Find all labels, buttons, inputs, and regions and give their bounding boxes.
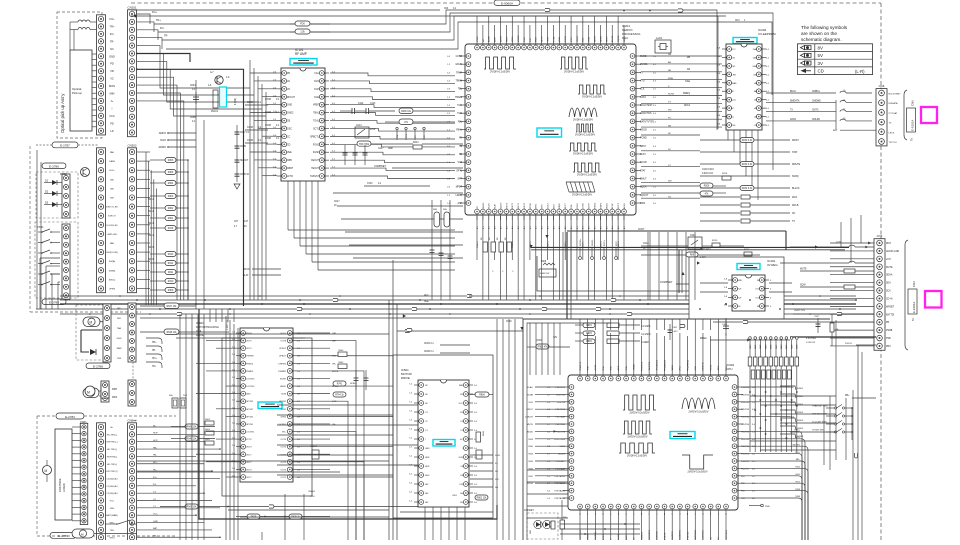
svg-text:R915: R915 xyxy=(586,341,592,343)
legend symbol 5V xyxy=(801,53,805,57)
svg-text:SW10: SW10 xyxy=(527,483,534,485)
svg-text:R302: R302 xyxy=(168,208,174,210)
svg-text:COMPDET: COMPDET xyxy=(374,165,386,168)
IC101 RF AMP xyxy=(281,68,325,181)
svg-text:COM: COM xyxy=(536,340,541,342)
PM8 stub xyxy=(761,504,764,507)
wires from ctrl connector right xyxy=(137,426,196,428)
svg-text:4-1: 4-1 xyxy=(612,226,614,229)
svg-text:SUBB: SUBB xyxy=(527,394,533,396)
svg-text:R806: R806 xyxy=(479,395,485,397)
svg-text:TGAL: TGAL xyxy=(313,120,320,123)
svg-text:SW2: SW2 xyxy=(795,467,801,469)
vertical bus lines x~390 xyxy=(388,300,390,540)
svg-text:C00B: C00B xyxy=(240,146,246,148)
mech section dashed border xyxy=(29,146,31,312)
svg-text:PM8: PM8 xyxy=(765,506,770,508)
svg-text:BXTTDI: BXTTDI xyxy=(886,314,895,316)
jumper xyxy=(412,307,417,310)
svg-text:/WAS: /WAS xyxy=(731,82,737,85)
wire bus FO- xyxy=(162,16,718,129)
svg-text:COM: COM xyxy=(247,139,253,142)
svg-text:VDD2: VDD2 xyxy=(606,202,608,209)
svg-text:4-1: 4-1 xyxy=(606,226,608,229)
svg-text:STAT: STAT xyxy=(640,169,646,172)
svg-text:/LRS: /LRS xyxy=(731,74,736,76)
svg-text:SPTL: SPTL xyxy=(456,170,462,172)
jumper xyxy=(854,453,857,458)
svg-text:F3-: F3- xyxy=(153,484,157,486)
resistor network element xyxy=(779,357,783,366)
resistor xyxy=(165,170,176,175)
svg-text:NCK2: NCK2 xyxy=(684,105,691,107)
svg-text:R312: R312 xyxy=(168,263,174,265)
svg-text:NE: NE xyxy=(668,70,672,72)
svg-text:MFBT: MFBT xyxy=(456,187,463,189)
svg-text:WD: WD xyxy=(668,110,672,112)
svg-text:LRCK/TRS: LRCK/TRS xyxy=(640,113,652,115)
waveform CLV xyxy=(484,57,516,69)
wire xyxy=(840,222,842,247)
svg-text:VC: VC xyxy=(424,135,426,138)
resistor R74x xyxy=(338,352,347,357)
svg-text:P06/TX2: P06/TX2 xyxy=(580,361,582,370)
svg-text:R744 1k: R744 1k xyxy=(335,395,344,397)
svg-text:HO+: HO+ xyxy=(152,358,157,360)
svg-text:LBP: LBP xyxy=(332,341,337,343)
resistor R2xx vertical xyxy=(507,242,512,252)
wire bus y331 xyxy=(397,330,523,332)
svg-text:OUT3: OUT3 xyxy=(246,469,252,471)
svg-text:MON: MON xyxy=(109,84,115,88)
arrow xyxy=(529,245,532,248)
IC401 3V REG container xyxy=(689,257,784,319)
svg-text:SOM: SOM xyxy=(281,394,286,396)
wire thick PSRB xyxy=(790,336,876,338)
svg-text:C00B 10: C00B 10 xyxy=(240,174,250,176)
svg-text:R303: R303 xyxy=(168,196,174,198)
svg-text:CQCK: CQCK xyxy=(618,35,620,42)
svg-text:OUT4: OUT4 xyxy=(280,439,286,441)
svg-text:VSS2: VSS2 xyxy=(477,36,479,42)
svg-text:FGN2: FGN2 xyxy=(313,144,320,146)
svg-text:OPEN: OPEN xyxy=(109,289,116,291)
svg-text:2V/DIV-0.2uS/DIV: 2V/DIV-0.2uS/DIV xyxy=(490,70,510,73)
vertical wires right edge of CPU box xyxy=(835,320,837,460)
svg-text:M: M xyxy=(45,469,48,473)
svg-text:MDP2: MDP2 xyxy=(600,202,602,209)
waveform pulses xyxy=(623,395,656,410)
svg-text:VCC2: VCC2 xyxy=(246,439,252,441)
svg-text:C2(100)LA1: C2(100)LA1 xyxy=(106,492,118,495)
wire PSRB row xyxy=(793,313,876,315)
svg-text:STAT: STAT xyxy=(792,151,798,154)
junction dots under network xyxy=(749,391,751,393)
bracket To E-9101A CN6 xyxy=(904,90,907,140)
svg-text:LOW DIF: LOW DIF xyxy=(806,342,816,344)
svg-text:WRST: WRST xyxy=(792,140,799,142)
svg-text:CBRT: CBRT xyxy=(287,168,294,170)
svg-text:DM: DM xyxy=(668,181,672,183)
svg-text:MNT0: MNT0 xyxy=(524,202,526,209)
R802 resistor xyxy=(551,521,555,529)
resistor R91x vertical xyxy=(830,323,834,332)
resistor R74x xyxy=(338,364,347,369)
svg-text:GND: GND xyxy=(246,394,251,396)
svg-text:VH: VH xyxy=(460,502,463,504)
svg-text:CN4: CN4 xyxy=(877,234,883,238)
resistor xyxy=(165,261,176,266)
svg-text:PB+: PB+ xyxy=(845,395,850,397)
svg-text:PB: PB xyxy=(886,322,890,324)
svg-text:TRKP: TRKP xyxy=(456,72,463,74)
wires IC201 to IC202 xyxy=(641,55,722,57)
svg-text:SPBLF: SPBLF xyxy=(332,386,340,388)
wire xyxy=(835,100,837,130)
svg-text:R603: R603 xyxy=(205,419,211,421)
svg-text:4-1: 4-1 xyxy=(483,226,485,229)
legend symbol CD xyxy=(801,68,807,73)
svg-text:MDS: MDS xyxy=(112,397,118,399)
jumper xyxy=(467,294,472,297)
svg-text:MP: MP xyxy=(117,308,121,310)
svg-text:LOCRV1: LOCRV1 xyxy=(246,432,255,434)
left verticals from E-2785 to bus xyxy=(39,258,41,309)
svg-text:P13/TA2B3: P13/TA2B3 xyxy=(555,482,566,485)
resistor R40x xyxy=(844,269,855,273)
svg-text:4-1: 4-1 xyxy=(500,226,502,229)
svg-text:NAE: NAE xyxy=(685,80,690,83)
svg-text:OUT4: OUT4 xyxy=(280,469,286,471)
svg-text:GND: GND xyxy=(287,105,292,107)
svg-text:THARGST SW1: THARGST SW1 xyxy=(812,405,829,408)
svg-text:SW3: SW3 xyxy=(528,439,534,441)
svg-text:BUS: BUS xyxy=(718,365,720,370)
jumper xyxy=(720,298,725,301)
svg-text:SW02: SW02 xyxy=(797,404,804,406)
wire thick ground lower xyxy=(199,309,497,519)
svg-text:A-LD: A-LD xyxy=(731,99,736,102)
svg-text:TAB: TAB xyxy=(117,327,122,330)
resistor xyxy=(740,138,754,143)
optical pickup assy dashed box xyxy=(57,12,102,138)
svg-text:TAB2: TAB2 xyxy=(116,347,122,350)
waveform xyxy=(623,421,652,434)
svg-text:3V REG.: 3V REG. xyxy=(767,263,779,267)
svg-text:P45/TB3: P45/TB3 xyxy=(741,409,750,411)
svg-text:R218: R218 xyxy=(722,173,728,175)
svg-text:LED+: LED+ xyxy=(109,170,115,172)
IC901 CPU body xyxy=(568,375,738,510)
svg-text:MNT3: MNT3 xyxy=(506,202,508,209)
resistor network element xyxy=(753,357,757,366)
svg-text:SQOUT: SQOUT xyxy=(640,195,649,197)
control logic block xyxy=(55,429,72,520)
waveform xyxy=(569,143,597,151)
svg-text:OUT: OUT xyxy=(755,289,760,291)
svg-text:ATSK: ATSK xyxy=(611,203,614,209)
svg-text:SQW: SQW xyxy=(800,285,806,287)
svg-text:Pick-up: Pick-up xyxy=(72,91,82,95)
svg-text:0.068 1W: 0.068 1W xyxy=(540,273,550,275)
svg-text:XTO: XTO xyxy=(640,81,645,83)
svg-text:LD: LD xyxy=(110,129,113,133)
svg-text:4-1: 4-1 xyxy=(589,226,591,229)
horizontal collectors right of network xyxy=(750,395,836,397)
svg-text:DRIVE: DRIVE xyxy=(401,376,410,380)
svg-text:MUTE1: MUTE1 xyxy=(793,444,801,446)
connector CN30x xyxy=(128,303,136,362)
svg-text:SSTP: SSTP xyxy=(589,203,591,209)
svg-text:COIL: COIL xyxy=(196,330,202,333)
svg-text:EJECT-LED: EJECT-LED xyxy=(106,207,118,209)
svg-text:FGSF: FGSF xyxy=(313,152,320,154)
wire bus FO+ xyxy=(154,10,717,130)
wires IC201 lower right to bus xyxy=(649,232,651,300)
svg-text:SMOUT: SMOUT xyxy=(240,160,249,162)
magenta square 2 xyxy=(925,291,942,308)
resistor xyxy=(741,203,750,207)
resistor xyxy=(741,219,750,223)
svg-text:TEST: TEST xyxy=(547,36,549,42)
svg-text:EC: EC xyxy=(460,439,463,441)
svg-text:LED: LED xyxy=(110,198,115,200)
svg-text:OUT7: OUT7 xyxy=(246,454,252,456)
connector CN4 xyxy=(874,239,885,351)
svg-text:XPCK: XPCK xyxy=(530,203,532,209)
svg-text:BLACK: BLACK xyxy=(792,187,800,190)
svg-text:SCK2: SCK2 xyxy=(595,364,597,370)
svg-text:COM: COM xyxy=(265,111,271,114)
svg-text:R0B: R0B xyxy=(433,209,438,211)
wire switch collector xyxy=(851,408,853,440)
svg-text:PBU: PBU xyxy=(886,346,891,348)
resistor xyxy=(165,226,176,231)
photo diodes DX02 xyxy=(52,180,57,185)
svg-text:CPLAY SW1: CPLAY SW1 xyxy=(812,429,825,432)
svg-text:CNP1: CNP1 xyxy=(80,421,87,424)
svg-text:FILI: FILI xyxy=(530,38,532,42)
svg-text:SRDO: SRDO xyxy=(483,202,485,209)
svg-text:SW4: SW4 xyxy=(528,454,534,456)
jumper xyxy=(407,328,412,331)
svg-text:VCKI: VCKI xyxy=(589,37,591,42)
svg-text:DVSS1: DVSS1 xyxy=(640,64,648,66)
jumper xyxy=(545,8,550,11)
resistor network element xyxy=(769,357,773,366)
svg-text:VREF: VREF xyxy=(313,105,320,107)
cap C92x vertical xyxy=(817,318,819,333)
bracket To E-9101A CN4 xyxy=(905,240,908,350)
cap cluster below IC201 left xyxy=(431,200,433,300)
svg-text:SE: SE xyxy=(459,154,463,156)
svg-text:AMP: AMP xyxy=(388,147,393,150)
svg-text:P07/TX1: P07/TX1 xyxy=(641,361,643,370)
svg-text:P45/TB2: P45/TB2 xyxy=(741,394,750,396)
svg-text:0.022: 0.022 xyxy=(672,331,678,333)
svg-text:MUTE: MUTE xyxy=(612,35,614,42)
svg-text:FGP: FGP xyxy=(314,89,319,91)
svg-text:PX02: PX02 xyxy=(60,172,67,176)
svg-text:R232 3.3k: R232 3.3k xyxy=(742,164,753,166)
svg-text:VC2: VC2 xyxy=(458,162,463,164)
highlight IC901 xyxy=(670,432,695,439)
svg-text:GPCN2: GPCN2 xyxy=(246,416,254,418)
svg-text:/DE: /DE xyxy=(753,74,757,76)
connector (mech left) xyxy=(97,148,106,293)
svg-text:HD-TRK(-): HD-TRK(-) xyxy=(107,449,117,451)
svg-text:NC: NC xyxy=(757,280,761,282)
svg-text:SCK: SCK xyxy=(886,291,891,293)
switch xyxy=(118,520,130,524)
svg-text:LD: LD xyxy=(287,81,290,83)
svg-text:DOOR-LED: DOOR-LED xyxy=(106,225,118,227)
svg-text:SCOR: SCOR xyxy=(640,162,647,164)
resistor R2xx vertical xyxy=(491,242,496,252)
svg-text:R802 10k: R802 10k xyxy=(477,498,488,500)
resistor R2xx vertical xyxy=(483,242,488,252)
motor M stadium xyxy=(83,317,100,327)
connector (ctrl) xyxy=(97,423,106,542)
transistor Q101 xyxy=(215,76,223,84)
svg-text:R232 3.3k: R232 3.3k xyxy=(742,140,753,142)
resistor xyxy=(185,424,198,429)
svg-text:LED: LED xyxy=(530,529,532,534)
svg-text:HI2F: HI2F xyxy=(425,466,430,468)
svg-text:MNT1: MNT1 xyxy=(518,202,520,209)
svg-text:SQOV: SQOV xyxy=(500,202,502,209)
svg-text:P64/MCK2: P64/MCK2 xyxy=(664,359,666,370)
svg-text:FEOUT: FEOUT xyxy=(311,160,319,162)
svg-text:2V/DIV-0.2uS/DIV: 2V/DIV-0.2uS/DIV xyxy=(687,470,707,473)
svg-text:C03: C03 xyxy=(444,8,449,10)
svg-text:R220: R220 xyxy=(712,240,718,242)
svg-text:LOCRV3: LOCRV3 xyxy=(246,386,255,388)
svg-text:4-1: 4-1 xyxy=(524,226,526,229)
resistor R213 xyxy=(413,145,422,149)
svg-text:DMDATA: DMDATA xyxy=(790,99,800,102)
svg-text:GND2: GND2 xyxy=(287,113,294,115)
svg-text:NC: NC xyxy=(425,394,429,396)
wires right of IC601 xyxy=(297,332,330,334)
svg-text:P33/TA2B2: P33/TA2B2 xyxy=(555,475,566,478)
svg-text:2V/DIV-0.2uS/DIV: 2V/DIV-0.2uS/DIV xyxy=(572,193,592,196)
C222 trimmer xyxy=(688,237,702,249)
svg-text:CX-EEPROM: CX-EEPROM xyxy=(758,32,776,36)
svg-text:MUTE: MUTE xyxy=(332,371,339,373)
svg-text:To: To xyxy=(911,318,915,321)
resistor R91x xyxy=(607,323,619,328)
svg-text:4-1: 4-1 xyxy=(477,226,479,229)
svg-text:C3(100)LA1: C3(100)LA1 xyxy=(106,477,118,480)
svg-text:SW(C): SW(C) xyxy=(109,279,116,281)
svg-text:SQ: SQ xyxy=(668,196,671,198)
svg-text:MNT2: MNT2 xyxy=(512,202,514,209)
connector 3p xyxy=(128,380,136,406)
svg-text:LED: LED xyxy=(110,179,115,181)
caps and ground right xyxy=(355,370,357,390)
wires lower-left inside CPU box xyxy=(527,469,568,471)
jumper xyxy=(297,307,302,310)
capacitor chain C007/C00B xyxy=(236,125,238,182)
resistor pair R647/R648 xyxy=(164,303,179,309)
resistor network element xyxy=(764,357,768,366)
svg-text:P1/3TA2T: P1/3TA2T xyxy=(556,460,566,463)
svg-text:HD-TRK(+): HD-TRK(+) xyxy=(107,434,118,436)
svg-text:SBSY: SBSY xyxy=(640,146,647,148)
svg-text:C-SENS: C-SENS xyxy=(641,342,650,344)
svg-text:ADMO: ADMO xyxy=(159,146,167,149)
crystal A-201 xyxy=(655,40,671,53)
svg-text:SCTL: SCTL xyxy=(313,128,320,130)
IC901 top stubs/labels xyxy=(579,355,581,371)
stadium 47k xyxy=(399,119,413,125)
svg-text:LRCK: LRCK xyxy=(889,132,895,134)
svg-text:COMPDET: COMPDET xyxy=(660,281,673,284)
svg-text:DWMB1: DWMB1 xyxy=(278,371,287,373)
svg-text:NC2: NC2 xyxy=(583,37,585,42)
svg-text:MDS2: MDS2 xyxy=(595,202,597,209)
svg-text:PD: PD xyxy=(110,62,114,66)
waveform sine xyxy=(569,108,597,117)
wires below IC101 xyxy=(287,181,289,230)
svg-text:BCLK: BCLK xyxy=(790,91,796,93)
svg-text:4-1: 4-1 xyxy=(565,226,567,229)
wire vertical left xyxy=(36,150,38,309)
components right of IC801 xyxy=(475,392,489,397)
resistor xyxy=(165,194,176,199)
svg-text:HDFTRK(+): HDFTRK(+) xyxy=(106,442,117,444)
svg-text:CN6: CN6 xyxy=(879,84,885,88)
svg-text:AB: AB xyxy=(687,68,691,71)
svg-text:WRST: WRST xyxy=(527,409,534,411)
svg-text:R206 10k: R206 10k xyxy=(401,111,412,113)
svg-text:E-2786: E-2786 xyxy=(49,165,59,169)
svg-text:FILO: FILO xyxy=(524,37,526,42)
svg-text:COM: COM xyxy=(247,126,253,129)
svg-text:LCR: LCR xyxy=(332,401,337,403)
resistor network element xyxy=(759,357,763,366)
vertical wire bundle left of IC101 xyxy=(249,60,251,300)
svg-text:VCC: VCC xyxy=(153,514,158,516)
svg-text:SW(B): SW(B) xyxy=(109,270,116,272)
svg-text:PCMD: PCMD xyxy=(640,138,647,140)
svg-text:2V/DIV-0.2uS/DIV: 2V/DIV-0.2uS/DIV xyxy=(577,173,597,176)
svg-text:2V/DIV-0.2uS/DIV: 2V/DIV-0.2uS/DIV xyxy=(688,410,708,413)
connector 2p xyxy=(101,381,109,398)
svg-text:PC: PC xyxy=(668,117,671,119)
thick wire from IC201 bottom right xyxy=(567,230,786,232)
svg-text:LOCK: LOCK xyxy=(583,203,585,209)
bottom motor + switch xyxy=(72,529,94,538)
ground sym xyxy=(234,184,240,189)
long horizontal wires lower xyxy=(176,333,389,335)
svg-text:FSTI: FSTI xyxy=(571,37,573,42)
svg-text:AVDD: AVDD xyxy=(488,36,491,42)
svg-text:TGD: TGD xyxy=(457,113,462,115)
wires below IC901 to bottom edge xyxy=(579,528,581,540)
svg-text:GRUV: GRUV xyxy=(455,64,462,66)
svg-text:C-FLSH1: C-FLSH1 xyxy=(641,326,651,328)
arrow xyxy=(520,327,523,330)
svg-text:SUBQ: SUBQ xyxy=(792,176,799,178)
wire vertical xyxy=(857,345,859,540)
svg-text:P64/MCK3: P64/MCK3 xyxy=(657,359,659,370)
svg-text:COM: COM xyxy=(265,98,271,101)
svg-text:CD: CD xyxy=(287,144,291,146)
svg-text:2V/DIV-0.2uS/DIV: 2V/DIV-0.2uS/DIV xyxy=(629,411,649,414)
svg-text:FOK: FOK xyxy=(300,24,305,26)
